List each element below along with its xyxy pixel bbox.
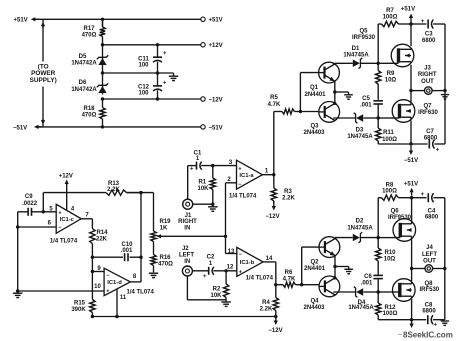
wire Q8 source down [411,299,413,320]
wire C9 right to pin5 [32,211,57,213]
svg-text:R12: R12 [384,305,396,311]
wire D3 line right [363,117,378,119]
svg-text:1N4745A: 1N4745A [343,53,369,59]
junction R2 top [224,269,227,272]
wire Q1 collector [334,62,336,65]
svg-text:100Ω: 100Ω [383,15,398,21]
wire C1 line left [188,165,197,167]
junction pin6 left [16,225,19,228]
wire Q4 emitter up [334,267,336,278]
wire ground stub mid rail [173,73,175,76]
resistor R9 [376,69,381,100]
arrow R19 wiper [157,234,163,238]
svg-text:100Ω: 100Ω [382,189,397,195]
wire C4 right [433,197,444,199]
svg-text:J2: J2 [182,246,189,252]
wire gate Q7 [378,117,392,119]
svg-text:R11: R11 [383,130,394,136]
svg-text:.001: .001 [121,248,133,254]
wire C8 right [433,319,445,321]
terminal +51V [201,17,205,21]
wire C2 right [213,270,237,272]
svg-text:R19: R19 [159,219,171,225]
svg-text:C11: C11 [138,56,149,62]
resistor R12 [376,292,381,320]
ground J1 [208,207,218,211]
resistor R2 [223,271,228,300]
svg-text:C9: C9 [25,194,33,200]
wire pin11 down [116,289,118,317]
svg-text:12: 12 [227,265,234,271]
junction +51V rail [101,18,104,21]
svg-text:−51V: −51V [13,125,27,131]
svg-text:10K: 10K [197,186,209,192]
wire D3 line left [333,117,356,119]
junction +51V node upper [409,22,412,25]
resistor R1 [210,166,215,205]
ground R16 [149,273,158,277]
capacitor C12 [153,86,162,91]
transistor Q4 [319,275,340,297]
resistor R11 [376,118,381,144]
svg-text:OUT: OUT [423,259,436,265]
junction emitter node lower [333,265,336,268]
svg-text:Q7: Q7 [423,104,432,110]
op-amp IC1-b [237,247,263,276]
svg-text:+51V: +51V [404,181,418,187]
resistor R7 [382,21,399,26]
wire IC1-b out [263,261,276,263]
wire gnd drop lower [348,267,350,270]
svg-text:D6: D6 [79,80,87,86]
svg-text:C3: C3 [425,31,433,37]
zener D5 [97,55,108,65]
svg-text:6800: 6800 [422,309,436,315]
wire R19-R16 [153,242,155,255]
svg-text:D1: D1 [352,46,360,52]
op-amp IC1-a [237,160,263,189]
svg-text:+: + [203,274,207,280]
wire -51V bottom rail [37,126,201,128]
wire J1 sleeve [193,203,213,205]
wire fb column [91,257,93,298]
svg-text:D3: D3 [356,128,364,134]
svg-text:2N4403: 2N4403 [303,130,325,136]
junction gnd node lower [443,267,446,270]
svg-text:1N4745A: 1N4745A [347,225,373,231]
junction +12V rail [101,43,104,46]
wire Q8 drain up [411,269,413,282]
svg-text:R5: R5 [270,95,278,101]
wire R13 right [127,192,154,194]
capacitor C8 [428,315,433,324]
svg-text:10: 10 [94,284,101,290]
svg-text:+: + [238,166,241,172]
junction output node upper [409,89,412,92]
wire Q6 source up [411,198,413,221]
svg-text:1N4742A: 1N4742A [71,61,97,67]
MOSFET Q5 IRF9530 [391,44,414,67]
svg-text:J1: J1 [185,213,192,219]
ground emitters lower [344,269,353,273]
svg-text:R8: R8 [386,182,394,188]
resistor R14 [90,228,95,257]
svg-text:+: + [190,167,194,173]
svg-text:R16: R16 [159,255,171,261]
wire C7 right [434,143,445,145]
svg-text:6800: 6800 [424,135,438,141]
wire pin13 stub [226,253,237,255]
resistor R17 [100,19,105,45]
resistor R15 [90,299,95,317]
wire J4 to gnd node [433,268,445,270]
svg-text:+12V: +12V [209,43,223,49]
transistor Q1 [319,62,340,83]
svg-text:LEFT: LEFT [422,252,437,258]
wire out to J3 [411,90,425,92]
junction mid rail left [101,71,104,74]
op-amp IC1-d [104,268,130,296]
svg-text:Q1: Q1 [310,85,319,91]
svg-text:IRF9530: IRF9530 [388,215,412,221]
svg-text:+51V: +51V [209,18,223,24]
junction R15 rail [91,315,94,318]
wire +51V top rail [34,18,201,20]
wire J2 sleeve right [187,299,226,301]
svg-text:2N4403: 2N4403 [303,305,325,311]
svg-text:.001: .001 [360,103,372,109]
junction C11 top [156,43,159,46]
svg-text:SUPPLY): SUPPLY) [30,77,57,84]
resistor R5 [274,109,301,114]
terminal -51V [201,125,205,129]
svg-text:4.7K: 4.7K [268,102,281,108]
wire C12 top [157,73,159,85]
wire gate Q8 [378,291,393,293]
wire out to J4 [412,268,425,270]
svg-text:+: + [239,270,242,276]
wire IC1-d out [130,281,141,283]
capacitor C5 [373,101,383,104]
svg-text:IRF630: IRF630 [418,110,438,116]
svg-text:+51V: +51V [14,18,28,24]
wire to C3 [411,23,426,25]
svg-text:.001: .001 [361,281,373,287]
wire C6 to D4 node [377,279,379,292]
svg-text:IC1-b: IC1-b [240,260,255,266]
wire out14 down [275,262,277,285]
resistor R3 [271,175,276,204]
junction R1 bottom [211,203,214,206]
svg-text:R4: R4 [262,300,270,306]
svg-text:1N4742A: 1N4742A [71,87,97,93]
svg-text:1/4 TL074: 1/4 TL074 [127,289,155,295]
wire right column lower [444,198,446,320]
wire J1 tip up [187,166,189,200]
svg-text:C5: C5 [362,96,370,102]
wire pin4 supply [66,184,68,211]
wire C10 line left [92,256,123,258]
svg-text:J3: J3 [424,65,431,71]
wire pin2 [226,182,237,184]
arrow supply bracket up [41,22,45,28]
svg-text:11: 11 [120,295,127,301]
svg-text:+: + [421,192,425,198]
ground output lower [441,321,450,325]
junction Q7 source rail [409,142,412,145]
svg-text:R9: R9 [387,71,395,77]
wire C5 to D3 node [377,105,379,119]
wire J3 to gnd node [432,90,445,92]
svg-text:1N4745A: 1N4745A [347,134,373,140]
resistor R10 [376,246,381,275]
junction C11 bottom [156,71,159,74]
wire gnd stub emitters upper [335,91,349,93]
wire D4 line right [363,291,378,293]
wire C11 top [157,45,159,57]
svg-text:470Ω: 470Ω [82,113,97,119]
jack J1 [183,199,193,209]
svg-text:C7: C7 [426,129,434,135]
wire -12V rail [103,98,201,100]
wire to C4 [412,197,427,199]
wire gate Q5 [378,62,392,64]
wire Q3 emitter up [334,92,336,103]
capacitor C10 [125,253,128,261]
svg-text:100: 100 [138,63,149,69]
wire wiper line [161,235,226,237]
svg-text:10Ω: 10Ω [384,256,396,262]
svg-text:+: + [421,19,425,25]
wire Q7 drain up [410,91,412,102]
junction output node lower [410,267,413,270]
arrow +51V upper [409,14,413,24]
svg-text:+: + [436,147,440,153]
svg-text:−: − [106,273,109,279]
svg-text:D5: D5 [79,54,87,60]
svg-text:470Ω: 470Ω [158,261,173,267]
svg-text:J4: J4 [426,245,433,251]
wire R13 node down [140,193,142,258]
svg-text:−: − [58,225,61,231]
svg-text:RIGHT: RIGHT [418,72,437,78]
svg-text:−12V: −12V [209,97,223,103]
svg-text:1N4745A: 1N4745A [348,305,374,311]
jack J3 [425,87,433,95]
zener D6 [97,83,108,93]
wire R7 to +51V node [399,23,412,25]
svg-text:2N4401: 2N4401 [304,266,326,272]
wire C1 right [201,165,236,167]
ground emitters upper [344,95,353,99]
wire Q2 base [302,246,319,248]
svg-text:2.2K: 2.2K [282,196,295,202]
junction C10 right [139,256,142,259]
wire Q2 emitter down [334,256,336,267]
svg-text:+51V: +51V [401,7,415,13]
terminal -12V [201,97,205,101]
junction pin9 node [91,270,94,273]
ground output upper [441,95,449,99]
wire gnd stub emitters lower [335,266,349,268]
svg-text:1/4 TL074: 1/4 TL074 [229,193,257,199]
wire R19 top [153,193,155,231]
wire right column upper [444,24,446,144]
svg-text:+: + [58,211,61,217]
svg-text:6800: 6800 [425,215,439,221]
wire pin9 [92,271,104,273]
wire mid rail [103,72,174,74]
wire D4 line left [333,291,356,293]
svg-text:C12: C12 [138,84,150,90]
svg-text:IC1-c: IC1-c [60,217,75,223]
svg-text:10K: 10K [210,293,222,299]
svg-text:1K: 1K [160,226,168,232]
capacitor C2 [209,267,214,275]
wire D1 line left [335,62,353,64]
diode D3 [354,113,363,124]
wire R8 to +51V node [399,197,412,199]
wire base node up [299,73,301,112]
capacitor C4 [428,193,433,202]
terminal +12V [201,43,205,47]
wire gnd stub J2 [225,300,227,302]
wire J2 tip [192,270,208,272]
wire J2 sleeve down [186,276,188,300]
wire C10 line right [130,256,141,258]
wire left ground vertical [17,212,19,291]
wire Q4 base [302,284,319,286]
ground IC input [13,293,23,297]
svg-text:LEFT: LEFT [179,253,194,259]
wire pin6 [18,226,57,228]
svg-text:R14: R14 [96,230,108,236]
wire Q5 source up [410,24,412,46]
wire -51V rail lower [378,319,426,321]
svg-text:+: + [163,51,167,57]
resistor R13 [106,190,141,195]
junction wiper to IC1-a pin2 [224,235,227,238]
svg-text:14: 14 [266,256,273,262]
jack J4 [425,265,433,273]
arrow -51V upper [409,146,413,155]
wire D1 line right [361,62,378,64]
svg-text:R15: R15 [74,301,86,307]
arrow +12V [65,180,69,185]
svg-text:+: + [434,323,438,329]
svg-text:−51V: −51V [209,125,223,131]
wire -51V rail upper [378,143,427,145]
ground J2 [221,302,231,306]
svg-text:IC1-d: IC1-d [107,280,122,286]
svg-text:R7: R7 [386,8,394,14]
wire gnd stub J1 [212,204,214,207]
svg-text:R6: R6 [285,270,293,276]
capacitor C6 [373,275,383,278]
arrow +51V left [31,17,39,21]
svg-text:C2: C2 [207,254,215,260]
arrow supply bracket down [41,119,45,125]
wire out corner down [91,219,93,228]
resistor R18 [100,99,105,127]
svg-text:Q4: Q4 [310,299,319,305]
svg-text:100Ω: 100Ω [382,137,397,143]
wire C9 left [18,211,28,213]
wire IC1-a out [262,174,273,176]
junction gnd node upper [443,89,446,92]
junction emitter node upper [333,90,336,93]
wire R13 left [43,192,106,194]
wire R7 stub [378,23,381,25]
wire Q7 source down [410,121,412,145]
svg-text:4.7K: 4.7K [283,277,296,283]
junction pin11 rail [115,315,118,318]
junction Q8 source rail [410,318,413,321]
wire bias column lower [377,198,379,246]
svg-text:C8: C8 [425,302,433,308]
svg-text:390K: 390K [71,307,86,313]
wire D6 anode [102,73,104,95]
arrow +51V lower [410,188,414,196]
svg-text:OUT: OUT [421,79,434,85]
wire pin10 [18,290,104,292]
svg-text:R13: R13 [108,181,120,187]
svg-text:−12V: −12V [265,214,279,220]
capacitor C7 [429,140,434,149]
resistor R4 [273,285,278,317]
wire D5 anode [102,45,104,67]
svg-text:100Ω: 100Ω [383,311,398,317]
svg-text:22K: 22K [96,237,108,243]
svg-text:IC1-a: IC1-a [239,173,254,179]
wire pin5 node up [42,193,44,212]
svg-text:C6: C6 [364,274,372,280]
svg-text:100: 100 [138,91,149,97]
junction R1 top [211,164,214,167]
wire Q5 drain down [410,65,412,91]
wire Q2 collector [334,237,336,240]
svg-text:Q3: Q3 [310,124,319,130]
svg-text:1/4 TL074: 1/4 TL074 [246,276,274,282]
svg-text:R10: R10 [384,250,396,256]
wire D2 line left [335,237,353,239]
MOSFET Q8 IRF530 [392,279,415,302]
svg-text:−: − [239,252,242,258]
ground mid rail [169,76,178,80]
junction Q2Q4 base node [300,283,303,286]
wire Q6 drain down [411,239,413,268]
svg-text:2.2K: 2.2K [107,187,120,193]
wire -12V rail lower [92,316,275,318]
junction D3 node [377,116,380,119]
wire Q1 emitter down [334,81,336,92]
MOSFET Q6 IRF9530 [393,219,416,242]
wire D2 line right [361,237,378,239]
wire supply bracket upper [42,19,44,61]
svg-text:C10: C10 [121,242,133,248]
diode D4 [354,287,363,298]
resistor R6 [276,282,302,287]
svg-text:8SeekIC.com: 8SeekIC.com [403,331,453,340]
junction ground node left [16,289,19,292]
junction R4 rail [274,315,277,318]
svg-text:13: 13 [228,249,235,255]
svg-text:+: + [163,80,167,86]
arrow -51V lower [410,320,414,328]
junction D4 node [377,290,380,293]
wire ground stub left [17,291,19,293]
resistor R8 [382,195,399,200]
